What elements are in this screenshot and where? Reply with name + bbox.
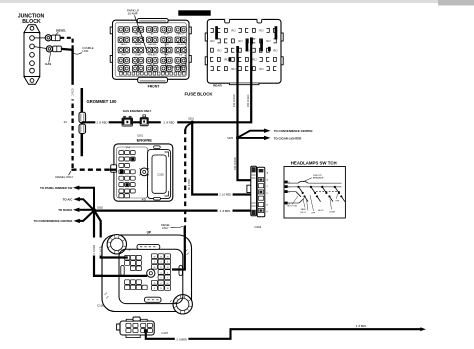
- svg-text:PWR ACC: PWR ACC: [148, 53, 157, 56]
- svg-text:BRAKE: BRAKE: [135, 64, 142, 67]
- svg-text:WIPER: WIPER: [135, 44, 142, 46]
- arrow TO PANEL DIMMER SW: [79, 188, 94, 211]
- svg-text:TO A/C: TO A/C: [63, 198, 74, 202]
- svg-text:2 .8 RED: 2 .8 RED: [164, 121, 175, 125]
- svg-text:16: 16: [153, 267, 155, 269]
- clip on C204 mid wire: [247, 185, 251, 192]
- arrow TO CONVENIENCE CENTER: [238, 131, 265, 138]
- svg-text:GROMMET 100: GROMMET 100: [87, 99, 118, 104]
- svg-text:HTR: HTR: [122, 54, 127, 56]
- svg-text:PARK LP: PARK LP: [177, 33, 186, 36]
- svg-text:740 .8 ORN: 740 .8 ORN: [234, 157, 237, 170]
- arrow TO RADIO: [79, 209, 94, 211]
- svg-text:BREAKER: BREAKER: [313, 177, 324, 180]
- svg-text:STOP: STOP: [164, 34, 170, 36]
- wire S201 dashed diesel feed to C100: [185, 123, 191, 130]
- wire diesel entry into C100: [172, 226, 185, 270]
- svg-text:HOT AT ALL TIMES: HOT AT ALL TIMES: [182, 11, 208, 15]
- svg-text:HD LP DIM: HD LP DIM: [287, 206, 297, 208]
- svg-text:1: 1: [154, 262, 155, 264]
- svg-text:19: 19: [153, 283, 155, 285]
- svg-text:HD LP: HD LP: [318, 210, 324, 212]
- connector C001 engine side: [114, 144, 173, 201]
- svg-text:3 .8 BRN: 3 .8 BRN: [220, 209, 231, 213]
- wire battery feed vertical: [71, 49, 73, 89]
- grommet 100: [79, 112, 86, 133]
- svg-text:ECM: ECM: [150, 65, 155, 67]
- wire S201 to C204 RED: [192, 122, 251, 194]
- arrow TO CIGAR LIGHTER: [238, 137, 265, 139]
- svg-text:REAR: REAR: [213, 83, 222, 87]
- arrow TO A/C: [80, 199, 94, 210]
- svg-text:TO CONVENIENCE CENTER: TO CONVENIENCE CENTER: [34, 219, 74, 223]
- svg-text:ONLY: ONLY: [162, 227, 169, 230]
- svg-text:4: 4: [161, 272, 162, 274]
- ring terminal GAS: [34, 46, 61, 63]
- svg-text:240 .8 RED: 240 .8 RED: [247, 94, 250, 107]
- svg-text:IDL: IDL: [165, 65, 168, 67]
- svg-text:2 RED: 2 RED: [71, 88, 74, 95]
- wire S010 down-right branch to C100: [94, 210, 128, 257]
- svg-text:CIRCUIT: CIRCUIT: [313, 175, 323, 177]
- C204 pin letters: [267, 172, 269, 214]
- svg-text:TURN: TURN: [164, 44, 170, 46]
- svg-text:HEADLAMPS SW TCH: HEADLAMPS SW TCH: [291, 160, 337, 165]
- svg-text:TO CONVENIENCE CENTER: TO CONVENIENCE CENTER: [274, 129, 314, 133]
- fuse block front view: [110, 19, 191, 83]
- svg-text:TO CIGAR LIGHTER: TO CIGAR LIGHTER: [274, 137, 302, 141]
- svg-text:DIESEL ONLY: DIESEL ONLY: [55, 175, 73, 179]
- wire right branch entry into C100: [101, 256, 128, 258]
- svg-text:LINK: LINK: [82, 49, 88, 53]
- svg-text:C100: C100: [157, 173, 164, 177]
- svg-text:FUSE BLOCK: FUSE BLOCK: [185, 92, 214, 97]
- svg-text:HORN: HORN: [178, 65, 184, 67]
- svg-text:RADIO: RADIO: [121, 43, 128, 46]
- svg-text:BLOCK: BLOCK: [22, 19, 41, 25]
- wire 440 ORN from rear fuse block to S205 to C204: [238, 50, 251, 180]
- wire diesel entry into C001: [110, 169, 117, 171]
- wire left branch entry into C100: [94, 275, 147, 277]
- svg-text:2 .8 BRN: 2 .8 BRN: [93, 245, 96, 255]
- connector C107: [117, 317, 155, 338]
- svg-text:GAS ENGINES ONLY: GAS ENGINES ONLY: [123, 109, 152, 113]
- svg-text:17: 17: [160, 267, 162, 269]
- fuse block rear view: [205, 19, 283, 85]
- connector C100 cab side: [102, 235, 192, 314]
- svg-text:S205: S205: [227, 137, 233, 140]
- svg-text:5: 5: [167, 272, 168, 274]
- svg-text:PARK: PARK: [301, 208, 307, 211]
- svg-text:TO RADIO: TO RADIO: [58, 208, 73, 212]
- svg-text:14: 14: [160, 256, 162, 258]
- svg-text:9: 9: [154, 288, 155, 290]
- svg-text:S201: S201: [188, 118, 194, 121]
- svg-text:3 .8 BRN: 3 .8 BRN: [176, 337, 187, 341]
- svg-text:C100: C100: [97, 304, 105, 308]
- svg-text:10: 10: [167, 288, 169, 290]
- node S205: [236, 136, 239, 139]
- svg-text:20: 20: [167, 283, 169, 285]
- inline connector 2: [140, 115, 149, 127]
- svg-text:20 AMP: 20 AMP: [128, 12, 138, 16]
- svg-text:#7B: #7B: [142, 199, 147, 201]
- label HOT AT ALL TIMES: [178, 10, 210, 15]
- svg-text:3: 3: [167, 262, 168, 264]
- wire S010 down-left branch to C100: [94, 210, 147, 276]
- svg-text:S010: S010: [97, 207, 103, 210]
- svg-text:13: 13: [153, 256, 155, 258]
- svg-text:TO PANEL DIMMER SW: TO PANEL DIMMER SW: [40, 186, 73, 190]
- svg-text:2: 2: [161, 262, 162, 264]
- wire S010 to C204 BRN: [94, 210, 251, 212]
- svg-text:2 1.0 RED: 2 1.0 RED: [219, 193, 231, 197]
- svg-text:FUEL: FUEL: [164, 54, 169, 56]
- wire 3 .8 BRN from C107 with arrow: [146, 329, 422, 339]
- svg-text:DOME: DOME: [329, 212, 335, 214]
- inline connector 1: [122, 116, 133, 127]
- svg-text:DIESEL: DIESEL: [56, 28, 66, 32]
- svg-text:2 .8 RED: 2 .8 RED: [97, 121, 108, 125]
- svg-text:DOME: DOME: [135, 54, 141, 56]
- svg-text:3 .8 BRN: 3 .8 BRN: [356, 324, 367, 328]
- arrow TO CONVENIENCE CENTER lower: [80, 211, 94, 221]
- svg-text:7: 7: [167, 278, 168, 280]
- svg-text:ENGINE: ENGINE: [137, 137, 153, 142]
- svg-text:18: 18: [167, 267, 169, 269]
- ring terminal DIESEL: [34, 32, 60, 41]
- junction block: [24, 25, 40, 85]
- wire park lamp feed from rear fuse block to S201: [192, 42, 251, 122]
- wire main feed through grommet: [81, 88, 84, 156]
- svg-text:HD LP: HD LP: [301, 212, 307, 214]
- svg-text:CHOKE: CHOKE: [177, 44, 184, 46]
- svg-text:21: 21: [160, 288, 162, 290]
- wire diesel feed to C001: [73, 169, 111, 170]
- svg-text:15: 15: [167, 256, 169, 258]
- svg-text:C107: C107: [161, 331, 168, 335]
- svg-text:6: 6: [161, 278, 162, 280]
- headlamps switch: [284, 167, 345, 219]
- wire 2 .8 RED horizontal: [82, 121, 192, 123]
- svg-text:FRONT: FRONT: [148, 85, 161, 89]
- wire fusible link gas: [61, 49, 73, 50]
- svg-text:GAUGES: GAUGES: [148, 43, 157, 46]
- node S010: [92, 208, 96, 212]
- wire fusible link diesel (dashed): [60, 38, 72, 50]
- svg-text:C204: C204: [254, 225, 261, 229]
- svg-text:440 .8 ORN: 440 .8 ORN: [233, 94, 236, 107]
- svg-text:GAS: GAS: [45, 62, 51, 66]
- node S201: [190, 121, 194, 125]
- svg-text:8: 8: [161, 283, 162, 285]
- connector C204: [251, 166, 265, 217]
- svg-text:39 .8 PNK: 39 .8 PNK: [188, 179, 191, 190]
